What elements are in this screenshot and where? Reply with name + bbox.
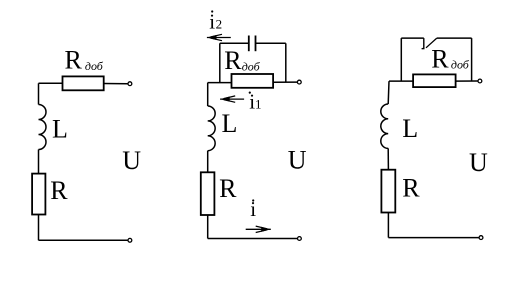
svg-text:R: R <box>431 45 449 74</box>
svg-text:L: L <box>52 115 68 144</box>
wire: Rdob to top terminal (circuit 3) <box>456 80 478 82</box>
svg-text:U: U <box>469 148 488 177</box>
wire: switch branch right vertical <box>471 38 473 81</box>
wire: main horizontal left of Rdob <box>208 82 232 84</box>
svg-text:R: R <box>65 45 83 74</box>
wire: cap branch right vertical <box>285 43 287 82</box>
wire: Rdob to top terminal <box>273 81 297 83</box>
svg-text:доб: доб <box>85 59 104 73</box>
wire: R to bottom corner (circuit 2) <box>207 215 209 239</box>
label i with overdot <box>250 197 256 221</box>
svg-text:R: R <box>219 174 237 203</box>
resistor Rdob (circuit 2 body) <box>232 74 274 88</box>
svg-text:R: R <box>402 173 420 202</box>
resistor R (circuit 3 body) <box>381 170 395 213</box>
wire: main horizontal left of Rdob (circuit 3) <box>389 80 413 82</box>
inductor L (circuit 3, bumps to the left) <box>381 104 388 148</box>
wire: left vertical upper segment (circuit 2) <box>207 83 209 106</box>
svg-text:доб: доб <box>242 59 261 73</box>
svg-text:2: 2 <box>216 16 223 31</box>
svg-text:L: L <box>402 114 418 143</box>
wire: left vertical upper segment <box>38 83 40 104</box>
wire: between L and R (circuit 3) <box>387 148 389 169</box>
wire: R to bottom corner <box>38 215 40 241</box>
current arrow i2 (points left) <box>207 34 231 40</box>
svg-text:R: R <box>50 176 68 205</box>
terminal: circuit 1 bottom <box>128 238 132 242</box>
wire: bottom horizontal (circuit 2) <box>208 238 297 240</box>
capacitor C (parallel with Rdob) <box>249 36 256 52</box>
wire: between L and R <box>38 150 40 174</box>
current arrow i (points right) <box>246 226 271 232</box>
resistor Rdob (circuit 1 body) <box>63 76 104 90</box>
svg-text:L: L <box>222 109 238 138</box>
svg-text:i: i <box>250 197 256 221</box>
wire: cap branch top-right horizontal <box>256 42 286 44</box>
resistor R (circuit 2 body) <box>201 172 215 215</box>
wire: bottom horizontal (circuit 3) <box>388 237 478 239</box>
wire: left vertical upper segment (circuit 3) <box>387 81 390 104</box>
wire: R to bottom corner (circuit 3) <box>387 213 389 238</box>
wire: top-left horizontal from corner to Rdob <box>39 82 63 84</box>
svg-text:i: i <box>209 9 215 33</box>
label Rdob (circuit 3) <box>431 45 470 74</box>
wire: switch branch left vertical <box>400 38 402 81</box>
wire: Rdob to top terminal <box>104 83 128 85</box>
switch S (open blade) <box>422 38 437 49</box>
resistor Rdob (circuit 3 body) <box>413 74 456 87</box>
svg-text:U: U <box>288 145 307 174</box>
svg-text:U: U <box>122 146 141 175</box>
resistor R (circuit 1 body) <box>32 174 45 215</box>
terminal: circuit 1 top <box>128 82 132 86</box>
label Rdob (circuit 2) <box>224 46 260 75</box>
current arrow i1 (points left) <box>220 96 244 102</box>
svg-text:1: 1 <box>255 96 262 111</box>
svg-text:доб: доб <box>451 58 470 72</box>
terminal: circuit 2 top <box>297 80 301 84</box>
wire: switch branch top-right horizontal <box>437 37 472 39</box>
wire: cap branch left vertical <box>219 43 221 82</box>
svg-text:R: R <box>224 46 242 75</box>
terminal: circuit 2 bottom <box>298 237 302 241</box>
wire: between L and R (circuit 2) <box>207 151 209 173</box>
inductor L (circuit 1) <box>39 105 47 150</box>
wire: bottom horizontal <box>39 239 128 241</box>
label i2 with overdot <box>209 9 222 33</box>
wire: switch branch top-left horizontal <box>401 37 424 39</box>
terminal: circuit 3 bottom <box>479 236 483 240</box>
terminal: circuit 3 top <box>478 79 482 83</box>
wire: cap branch top-left horizontal <box>220 42 249 44</box>
inductor L (circuit 2) <box>208 106 215 151</box>
label i1 with overdot <box>249 89 262 113</box>
label Rdob (circuit 1) <box>65 45 104 74</box>
